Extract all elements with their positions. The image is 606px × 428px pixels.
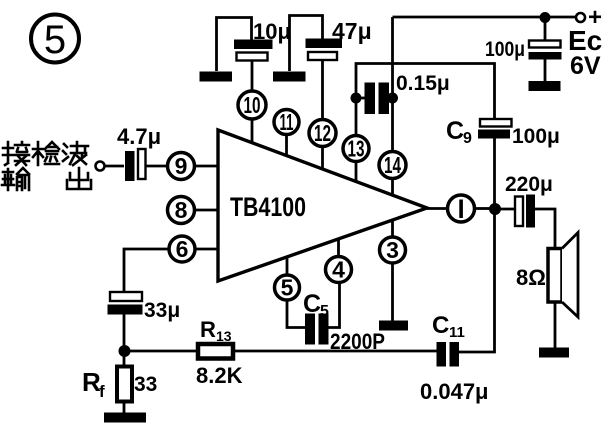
svg-text:8Ω: 8Ω [516, 265, 546, 290]
wire pin10 to C10u [251, 61, 254, 91]
pin 4 [326, 257, 352, 283]
svg-text:47μ: 47μ [332, 18, 372, 44]
input terminal [96, 162, 105, 171]
wire node A up and right to C9 [356, 64, 495, 119]
terminal + Ec [568, 4, 602, 80]
svg-text:f: f [99, 382, 105, 401]
figure number 5 [31, 15, 79, 63]
svg-text:TB4100: TB4100 [230, 192, 306, 222]
char 检 [33, 142, 59, 165]
wire pin8 to amp [195, 209, 219, 212]
ground 10u [200, 72, 233, 82]
wire pin14 to node B and up to rail [391, 17, 394, 152]
capacitor 4.7u [117, 124, 161, 181]
capacitor C9 100u [446, 117, 560, 148]
wire node to R13 [124, 350, 198, 353]
svg-text:9: 9 [463, 130, 472, 147]
capacitor 47u [306, 18, 372, 60]
svg-text:8.2K: 8.2K [196, 363, 243, 388]
pin 9 [168, 153, 195, 180]
svg-text:C: C [446, 117, 464, 145]
ground supply [529, 81, 561, 91]
svg-text:C: C [303, 290, 321, 318]
capacitor 220u [505, 173, 553, 228]
ground Rf [104, 413, 146, 423]
svg-text:8: 8 [175, 197, 188, 223]
svg-text:R: R [200, 317, 216, 342]
wire pin9 to amp [195, 165, 219, 168]
ground pin3 [379, 321, 408, 331]
speaker 8 ohm [516, 233, 578, 318]
char 波 [63, 142, 88, 165]
wire pin10 lead [251, 119, 254, 144]
capacitor C5 2200P [303, 290, 385, 354]
pin 11 [274, 109, 299, 135]
wire pin11 lead [285, 135, 288, 157]
pin 13 [343, 136, 369, 162]
node supply junction [540, 12, 551, 23]
pin 8 [168, 197, 195, 224]
wire speaker to ground [554, 302, 557, 348]
svg-text:12: 12 [314, 120, 331, 146]
svg-text:6V: 6V [570, 52, 601, 80]
wire pin14 lead [391, 179, 394, 196]
svg-text:11: 11 [449, 324, 465, 341]
wire pin6 to amp [195, 248, 218, 251]
wire pin4 lead [337, 240, 340, 257]
ground 47u [273, 72, 306, 82]
svg-text:0.15μ: 0.15μ [396, 72, 450, 95]
wire pin13 to node A [355, 98, 358, 136]
wire pin3 to ground [391, 263, 394, 322]
wire rail to C100u [544, 17, 547, 40]
pin 6 [169, 236, 195, 262]
resistor Rf 33 [82, 367, 157, 402]
char 出 [67, 168, 91, 189]
wire output node to C220u [495, 208, 515, 211]
pin 14 [379, 152, 406, 179]
svg-text:33μ: 33μ [144, 299, 180, 322]
amplifier U1 TB4100 [218, 130, 427, 281]
wire C5 to pin4 [329, 283, 340, 328]
wire C4.7u to pin9 [146, 165, 168, 168]
wire C100u to ground [544, 60, 547, 82]
svg-text:6: 6 [176, 236, 189, 262]
wire input to C 4.7u [105, 165, 125, 168]
wire pin5 lead [286, 257, 289, 276]
svg-text:220μ: 220μ [505, 173, 553, 196]
wire C10u top hook to ground [217, 18, 252, 72]
wire pin12 to C47u [321, 61, 324, 120]
capacitor 33u [108, 292, 181, 322]
capacitor 100u supply [485, 38, 562, 61]
wire node to Rf [123, 351, 126, 367]
wire C33u to feedback node [123, 315, 126, 352]
wire Rf to ground [123, 402, 126, 414]
svg-text:13: 13 [216, 328, 232, 344]
svg-text:5: 5 [320, 303, 329, 320]
svg-text:10: 10 [244, 92, 261, 118]
pin 3 [380, 237, 406, 263]
svg-text:33: 33 [134, 373, 157, 396]
ground speaker [539, 348, 569, 358]
capacitor C11 0.047u [420, 312, 489, 404]
node B junction right of C0.15u [387, 93, 398, 104]
wire output node down to C11 [459, 209, 495, 352]
wire supply rail [393, 16, 577, 19]
wire C9 to output node [493, 139, 496, 210]
wire pin12 lead [321, 147, 324, 170]
svg-text:5: 5 [281, 275, 294, 301]
label input Chinese 接检波 输出 [2, 142, 91, 190]
pin 5 [275, 275, 300, 301]
svg-text:11: 11 [280, 109, 294, 135]
wire pin3 lead [391, 221, 394, 238]
resistor R13 8.2K [196, 317, 243, 388]
pin 12 [309, 120, 336, 147]
pin 10 [238, 91, 266, 119]
svg-text:C: C [432, 312, 449, 339]
node A junction left of C0.15u [351, 93, 362, 104]
wire apex to pin1 [427, 207, 448, 210]
wire R13 to C11 [233, 350, 437, 353]
svg-text:100μ: 100μ [485, 38, 525, 61]
svg-text:5: 5 [44, 18, 66, 62]
svg-text:10μ: 10μ [253, 19, 291, 44]
svg-text:4.7μ: 4.7μ [117, 124, 161, 149]
pin 1 [448, 195, 475, 222]
node output junction [489, 203, 501, 215]
svg-text:13: 13 [348, 136, 365, 162]
char 输 [2, 168, 29, 190]
capacitor 10u [234, 19, 291, 61]
wire pin13 lead [355, 162, 358, 183]
wire pin1 to output node [475, 207, 491, 210]
svg-text:14: 14 [384, 152, 401, 178]
svg-text:3: 3 [386, 237, 399, 263]
svg-text:100μ: 100μ [512, 125, 560, 148]
wire C47u top hook to ground [290, 16, 323, 72]
svg-text:9: 9 [175, 153, 188, 179]
wire pin6 to C33u [124, 249, 169, 292]
node feedback junction [119, 345, 131, 357]
svg-text:2200P: 2200P [330, 329, 385, 354]
wire C220u to speaker [535, 209, 555, 249]
svg-text:0.047μ: 0.047μ [420, 379, 489, 404]
capacitor 0.15u [362, 72, 450, 114]
svg-text:4: 4 [332, 257, 345, 283]
wire pin5 to C5 [287, 300, 305, 328]
char 接 [3, 142, 29, 165]
